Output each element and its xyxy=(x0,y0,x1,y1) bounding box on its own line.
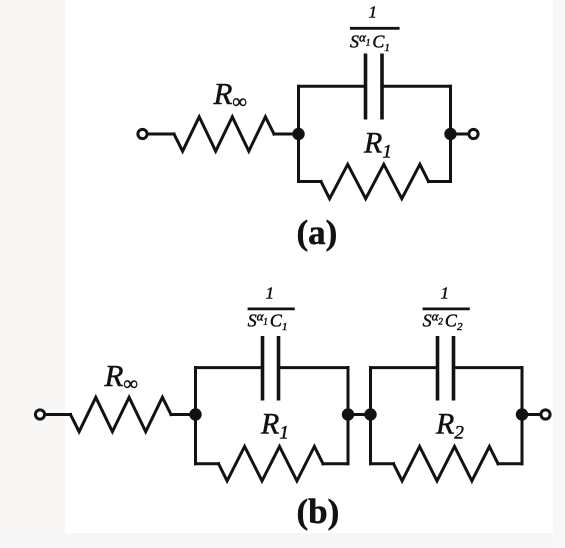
node 1 (b) xyxy=(189,408,201,420)
capacitor value label 1/(S^a1 C1) (b) xyxy=(248,284,295,334)
wire resistor to node (a) xyxy=(274,133,299,136)
terminal right (b) xyxy=(541,410,550,419)
capacitor C2 left plate (b) xyxy=(436,336,440,401)
terminal left (b) xyxy=(35,410,44,419)
node 2 (b) xyxy=(342,408,354,420)
wire resistor to node (b) xyxy=(171,413,196,416)
wire node to terminal (a) xyxy=(451,133,468,136)
node left (a) xyxy=(292,128,304,140)
box1 top-left wire (b) xyxy=(196,366,263,369)
capacitor C2 right plate (b) xyxy=(452,336,456,401)
box2 left edge (b) xyxy=(369,368,372,464)
box2 bottom-right wire (b) xyxy=(498,462,522,465)
capacitor value label 1/(S^a1 C1) (a) xyxy=(350,3,400,55)
box1 right edge (b) xyxy=(347,368,350,464)
capacitor value label 1/(S^a2 C2) (b) xyxy=(423,284,470,334)
box2 right edge (b) xyxy=(521,368,524,464)
node 4 (b) xyxy=(516,408,528,420)
capacitor right plate (a) xyxy=(380,54,384,120)
wire terminal to resistor (a) xyxy=(149,133,175,136)
box1 bottom-right wire (b) xyxy=(323,462,348,465)
svg-text:1: 1 xyxy=(266,284,275,303)
resistor R1 (a) xyxy=(321,164,429,198)
box1 top-right wire (b) xyxy=(279,366,349,369)
box bottom-right wire (a) xyxy=(429,180,451,183)
capacitor left plate (a) xyxy=(364,54,368,120)
capacitor C1 left plate (b) xyxy=(261,336,265,401)
svg-text:1: 1 xyxy=(441,284,450,303)
box2 bottom-left wire (b) xyxy=(371,462,394,465)
box1 bottom-left wire (b) xyxy=(196,462,219,465)
box2 top-left wire (b) xyxy=(371,366,438,369)
svg-text:1: 1 xyxy=(369,3,378,22)
box bottom-left wire (a) xyxy=(299,180,322,183)
resistor R_inf (b) xyxy=(71,397,172,431)
wire node to terminal (b) xyxy=(522,413,540,416)
wire between nodes (b) xyxy=(348,413,371,416)
capacitor C1 right plate (b) xyxy=(277,336,281,401)
resistor R_inf (a) xyxy=(174,117,274,151)
box top-left wire (a) xyxy=(299,85,366,88)
resistor R1 (b) xyxy=(219,447,324,481)
wire terminal to resistor (b) xyxy=(46,413,71,416)
box right edge (a) / wire xyxy=(449,86,452,181)
terminal left (a) xyxy=(138,129,147,138)
box top-right wire (a) xyxy=(382,85,451,88)
box2 top-right wire (b) xyxy=(454,366,523,369)
svg-text:(b): (b) xyxy=(297,492,340,531)
node right (a) xyxy=(444,128,456,140)
terminal right (a) xyxy=(469,129,478,138)
box left edge (a) / wire xyxy=(297,86,300,181)
node 3 (b) xyxy=(364,408,376,420)
box1 left edge (b) xyxy=(194,368,197,464)
resistor R2 (b) xyxy=(394,447,499,481)
svg-text:(a): (a) xyxy=(297,213,338,252)
